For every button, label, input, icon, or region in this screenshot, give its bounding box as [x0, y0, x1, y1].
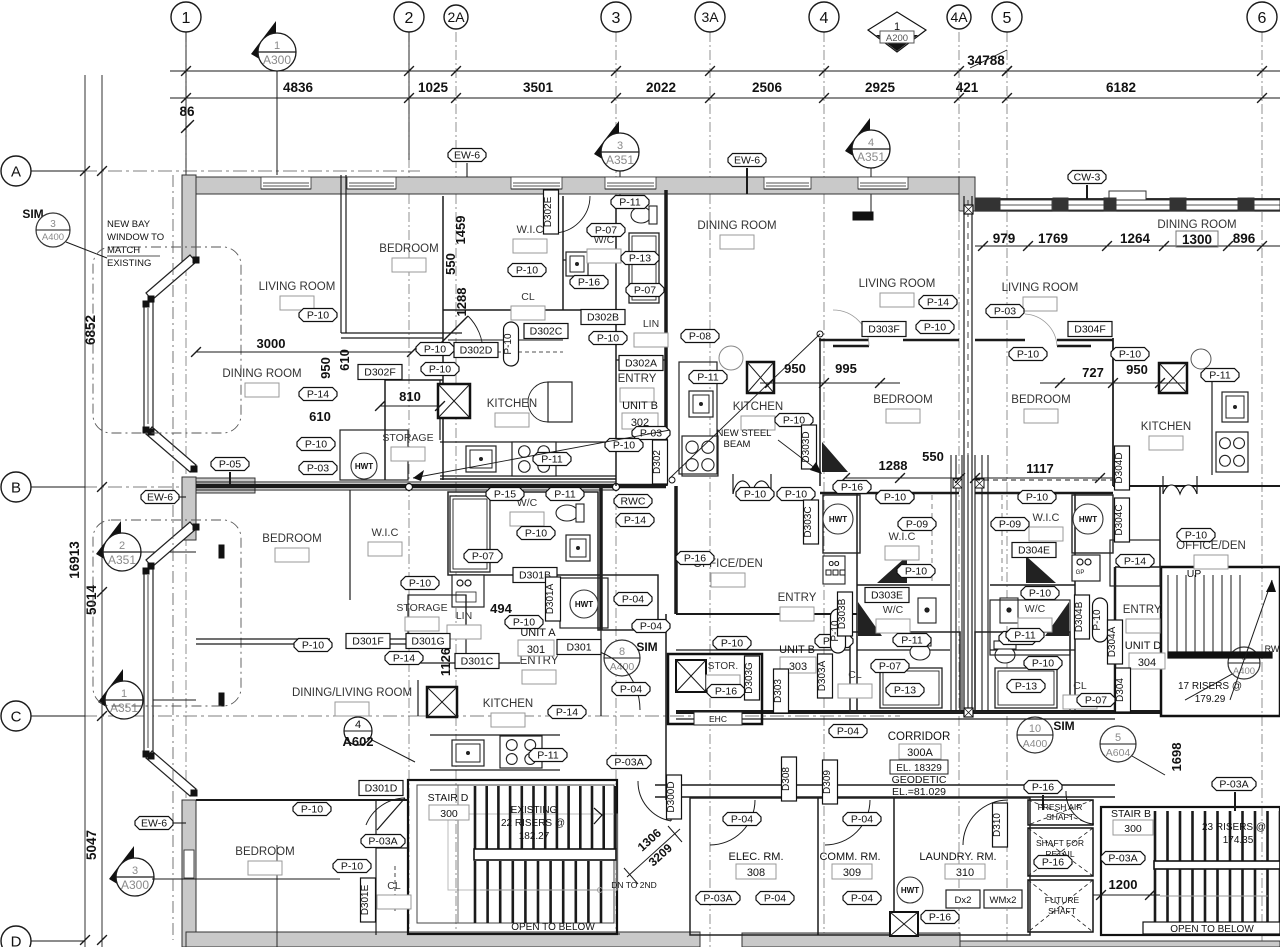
plumbing tag P-10	[897, 565, 935, 578]
svg-text:P-11: P-11	[537, 750, 559, 762]
svg-text:2506: 2506	[752, 80, 783, 95]
door tag D303A	[818, 654, 833, 698]
svg-text:BEDROOM: BEDROOM	[873, 394, 932, 406]
wall rooms bottom box	[690, 798, 1030, 935]
plumbing tag P-13	[621, 252, 659, 265]
shaft kitchen A	[427, 687, 457, 717]
svg-text:ENTRY: ENTRY	[778, 592, 817, 604]
wall bath core top	[676, 649, 850, 651]
door tag D301F	[346, 634, 390, 649]
svg-text:727: 727	[1082, 365, 1104, 380]
junction square 4A a	[964, 205, 973, 214]
wall unitD wc	[990, 600, 1070, 655]
svg-text:LIN: LIN	[643, 318, 659, 330]
mid tag P-14 extra	[919, 296, 957, 309]
svg-text:D308: D308	[781, 767, 792, 791]
plumbing tag P-16	[1034, 856, 1072, 869]
wall party 3 upper	[664, 190, 668, 486]
svg-text:P-07: P-07	[879, 661, 901, 673]
cl3 dashes	[394, 866, 396, 911]
marker 1/A351c	[98, 669, 123, 717]
window top 1	[261, 177, 311, 189]
marker 1/A200 diamond	[868, 12, 926, 52]
bay window 2	[146, 522, 196, 567]
leader EW-6 a	[466, 163, 468, 177]
plumbing tag P-10	[1024, 657, 1062, 670]
plumbing tag P-16	[833, 481, 871, 494]
svg-text:P-14: P-14	[1124, 556, 1146, 568]
plumbing tag P-10	[815, 635, 853, 648]
node junction B2	[406, 484, 413, 491]
shaft unitB stor	[676, 660, 706, 692]
grid line C	[33, 715, 420, 717]
svg-text:2022: 2022	[646, 80, 676, 95]
svg-text:P-15: P-15	[494, 489, 516, 501]
svg-text:421: 421	[956, 80, 979, 95]
row A leader	[31, 170, 85, 172]
plumbing tag P-10	[1021, 587, 1059, 600]
svg-text:Dx2: Dx2	[955, 895, 972, 906]
plumbing tag P-11	[999, 632, 1037, 645]
room tag box DINING ROOM	[245, 383, 279, 397]
wall right unit kitchen	[1112, 338, 1114, 486]
plumbing tag P-04	[723, 813, 761, 826]
wall mid bedroomR right	[1112, 338, 1114, 486]
door tag D303	[774, 669, 789, 713]
svg-text:2925: 2925	[865, 80, 896, 95]
svg-text:EW-6: EW-6	[141, 818, 167, 830]
svg-text:WINDOW TO: WINDOW TO	[107, 232, 164, 243]
stair-up risers	[1167, 575, 1169, 655]
svg-text:CL: CL	[521, 291, 535, 303]
svg-text:W.I.C: W.I.C	[517, 224, 544, 236]
ehc box	[694, 712, 742, 725]
door wedge wicR	[1026, 556, 1056, 583]
plumbing tag P-11	[611, 196, 649, 209]
left dimension line inner	[101, 75, 103, 947]
svg-text:DINING ROOM: DINING ROOM	[697, 220, 776, 232]
plumbing tag P-05	[211, 458, 249, 471]
svg-text:P-03: P-03	[994, 306, 1016, 318]
svg-text:COMM. RM.: COMM. RM.	[819, 851, 880, 863]
window top-right 1	[1000, 200, 1052, 210]
room tag box ENTRY	[620, 388, 654, 402]
svg-text:P-10: P-10	[1119, 349, 1141, 361]
room tag box BEDROOM	[886, 409, 920, 423]
svg-text:P-13: P-13	[629, 253, 651, 265]
svg-text:300A: 300A	[907, 747, 933, 759]
wall bedroom2 right	[349, 490, 351, 600]
door tag D301	[557, 640, 601, 655]
door entryA	[578, 648, 640, 710]
svg-text:D303D: D303D	[801, 431, 812, 462]
svg-text:550: 550	[443, 253, 458, 275]
svg-text:22 RISERS @: 22 RISERS @	[501, 818, 565, 829]
svg-text:D303C: D303C	[803, 506, 814, 537]
door wedge D303D	[822, 442, 848, 472]
svg-text:HWT: HWT	[575, 600, 593, 609]
wall cl1 bottom	[443, 309, 616, 311]
plumbing tag P-10	[508, 264, 546, 277]
plumbing tag P-10	[517, 527, 555, 540]
counter 302B	[679, 362, 717, 474]
door tag D302E	[544, 190, 559, 234]
svg-text:P-11: P-11	[541, 454, 563, 466]
plumbing tag P-09	[991, 518, 1029, 531]
wall corridor left	[665, 614, 667, 800]
plumbing tag EW-6	[448, 149, 486, 162]
svg-text:P-10: P-10	[785, 489, 807, 501]
door tag D304	[1116, 668, 1131, 712]
section line 1 bottom	[276, 845, 278, 947]
room tag box LIVING ROOM	[280, 296, 314, 310]
node junction B3	[613, 484, 620, 491]
door tag D301B	[513, 568, 557, 583]
svg-text:8: 8	[619, 646, 625, 658]
door wedge wcR	[1045, 602, 1069, 636]
wall party 4A	[963, 196, 965, 716]
svg-text:BEDROOM: BEDROOM	[262, 533, 321, 545]
svg-text:10: 10	[1029, 723, 1041, 735]
svg-text:BEDROOM: BEDROOM	[235, 846, 294, 858]
door tag D304A	[1108, 620, 1123, 664]
svg-text:P-03A: P-03A	[703, 893, 732, 905]
grid bubble 2A	[444, 5, 468, 29]
wall kitchen counter top	[440, 478, 616, 480]
tub unit A	[450, 496, 490, 572]
wall stub B	[196, 478, 255, 493]
bifold door right	[1163, 485, 1197, 494]
room tag box CL	[1063, 695, 1097, 709]
svg-text:DINING/LIVING ROOM: DINING/LIVING ROOM	[292, 687, 412, 699]
dim line 810	[380, 405, 440, 407]
svg-text:2: 2	[405, 10, 414, 27]
svg-text:D301: D301	[566, 642, 591, 654]
svg-text:OPEN TO BELOW: OPEN TO BELOW	[511, 922, 595, 933]
door tag D302C	[524, 324, 568, 339]
plumbing tag P-10	[1177, 529, 1215, 542]
svg-text:D302: D302	[652, 450, 663, 474]
wall unitD left vertical	[1114, 567, 1117, 712]
junction square 4A c	[964, 708, 973, 717]
dimension line lower	[170, 97, 1280, 99]
grid line 4A	[958, 32, 960, 947]
svg-text:P-16: P-16	[929, 912, 951, 924]
plumbing tag P-11	[533, 453, 571, 466]
svg-text:3: 3	[132, 865, 138, 877]
wall unit A right	[599, 486, 603, 630]
toilet 302	[631, 206, 657, 224]
svg-text:W/C: W/C	[883, 604, 904, 616]
svg-text:NEW BAY: NEW BAY	[107, 219, 151, 230]
grid bubble 1	[171, 2, 201, 32]
room tag box W.I.C	[1029, 527, 1063, 541]
svg-text:1300: 1300	[1182, 232, 1212, 247]
plumbing tag P-07	[871, 660, 909, 673]
svg-text:P-04: P-04	[764, 893, 786, 905]
svg-text:P-10: P-10	[525, 528, 547, 540]
svg-text:5047: 5047	[84, 830, 99, 860]
wall unitD left	[1115, 566, 1161, 568]
svg-text:UNIT D: UNIT D	[1125, 640, 1162, 652]
svg-text:CORRIDOR: CORRIDOR	[888, 731, 951, 743]
wall unitB storage	[668, 654, 762, 724]
door tag D304C	[1115, 498, 1130, 542]
fixture circle 302B	[719, 346, 743, 370]
svg-text:P-10: P-10	[924, 322, 946, 334]
svg-text:1769: 1769	[1038, 231, 1068, 246]
grid bubble 3	[601, 2, 631, 32]
svg-text:P-10: P-10	[721, 638, 743, 650]
svg-text:P-10: P-10	[1017, 349, 1039, 361]
svg-text:D303A: D303A	[817, 660, 828, 691]
svg-text:P-11: P-11	[901, 635, 923, 647]
svg-text:D304B: D304B	[1074, 601, 1085, 632]
svg-text:P-03A: P-03A	[1108, 853, 1137, 865]
svg-text:BEAM: BEAM	[724, 439, 751, 450]
svg-text:KITCHEN: KITCHEN	[483, 698, 533, 710]
wall unit A right low	[600, 630, 602, 716]
svg-text:979: 979	[993, 231, 1016, 246]
plumbing tag P-04	[756, 892, 794, 905]
door tag D302D	[454, 343, 498, 358]
wall mid units bottom	[676, 613, 857, 615]
room tag box OFFICE/DEN	[1194, 555, 1228, 569]
svg-text:OO: OO	[829, 561, 840, 568]
svg-text:P-10: P-10	[1185, 530, 1207, 542]
grid stub 2	[408, 32, 410, 160]
svg-text:550: 550	[922, 449, 944, 464]
marker 3/A300 sectline	[152, 878, 340, 880]
plumbing tag P-10	[293, 803, 331, 816]
room tag box ENTRY.	[1126, 619, 1160, 633]
room tag box W/C	[1018, 618, 1052, 632]
svg-text:CL: CL	[848, 669, 862, 681]
svg-text:182.27: 182.27	[519, 831, 550, 842]
plumbing tag P-04	[843, 813, 881, 826]
sink k302	[466, 446, 496, 472]
svg-text:P-05: P-05	[219, 459, 241, 471]
svg-text:301: 301	[527, 644, 545, 656]
window left low 1	[184, 850, 194, 878]
plumbing tag P-03A	[607, 756, 651, 769]
stair B rail	[1160, 895, 1268, 897]
mid tag P-10 extra	[916, 321, 954, 334]
door tag D310	[993, 803, 1008, 847]
shaft mid kitchen	[1159, 363, 1187, 393]
room tag box W/C	[587, 249, 621, 263]
grid line 5	[1006, 32, 1008, 947]
stair D handrail	[480, 889, 598, 891]
svg-text:LIN: LIN	[456, 610, 472, 622]
svg-text:GEODETIC: GEODETIC	[892, 774, 947, 786]
room tag box CL	[511, 306, 545, 320]
svg-text:P-10: P-10	[1029, 588, 1051, 600]
svg-text:D301C: D301C	[461, 656, 494, 668]
wall bathD box	[975, 632, 1070, 712]
row C leader	[31, 715, 85, 717]
plumbing tag P-10	[299, 309, 337, 322]
plumbing tag P-14	[299, 388, 337, 401]
svg-text:CL: CL	[1073, 680, 1087, 692]
svg-text:P-10: P-10	[409, 578, 431, 590]
wall unitA entry top	[408, 662, 520, 664]
svg-text:P-10: P-10	[429, 364, 451, 376]
svg-text:D304D: D304D	[1114, 452, 1125, 483]
exterior wall bottom mid	[742, 933, 960, 947]
svg-text:P-16: P-16	[578, 277, 600, 289]
plumbing tag P-04	[612, 683, 650, 696]
svg-text:4: 4	[868, 137, 874, 149]
window top-right 5	[1254, 200, 1280, 210]
svg-text:3000: 3000	[257, 336, 286, 351]
svg-text:310: 310	[956, 867, 974, 879]
stair D divider	[457, 785, 459, 923]
svg-text:D302E: D302E	[543, 196, 554, 227]
svg-text:P-16: P-16	[684, 553, 706, 565]
svg-text:P-04: P-04	[620, 684, 642, 696]
svg-text:950: 950	[1126, 362, 1148, 377]
shaft for retail	[1028, 828, 1093, 876]
wall mid units top L	[819, 339, 869, 342]
door leaf D303F	[833, 345, 869, 348]
plumbing tag P-10	[505, 616, 543, 629]
marker 5/A604	[1100, 726, 1136, 762]
svg-text:P-16: P-16	[841, 482, 863, 494]
svg-text:D304E: D304E	[1018, 545, 1050, 557]
svg-text:A300: A300	[121, 878, 149, 892]
plumbing tag P-16	[707, 685, 745, 698]
leader CW-3	[1086, 185, 1088, 199]
grid line 3	[615, 32, 617, 947]
plumbing tag P-16	[570, 276, 608, 289]
svg-text:KITCHEN: KITCHEN	[733, 401, 783, 413]
door D302E	[552, 196, 554, 233]
plumbing tag P-08	[681, 330, 719, 343]
plumbing tag P-10	[589, 332, 627, 345]
svg-text:B: B	[11, 479, 21, 496]
plumbing tag EW-6	[141, 491, 179, 504]
plumbing tag P-07	[626, 284, 664, 297]
svg-text:CW-3: CW-3	[1074, 172, 1101, 184]
dim line 950-995	[760, 382, 900, 384]
grid bubble 6	[1247, 2, 1277, 32]
door leaf D304F	[1057, 345, 1091, 348]
svg-text:P-14: P-14	[307, 389, 329, 401]
wall 309/310 divider	[893, 798, 895, 935]
svg-text:P-07: P-07	[1085, 695, 1107, 707]
wall mid bedroomL left	[819, 338, 821, 486]
svg-text:W.I.C: W.I.C	[372, 527, 399, 539]
svg-text:P-11: P-11	[554, 489, 576, 501]
svg-text:EL. 18329: EL. 18329	[896, 763, 942, 774]
room tag box W.I.C	[368, 542, 402, 556]
stair B risers upper	[1154, 811, 1157, 861]
wall kitchen1 left	[439, 380, 441, 440]
room tag box LIVING ROOM	[1023, 297, 1057, 311]
wall 308/309 divider	[817, 798, 819, 935]
plumbing tag P-10	[777, 488, 815, 501]
svg-text:D301A: D301A	[545, 583, 556, 614]
hwt storage top	[351, 453, 377, 479]
svg-text:308: 308	[747, 867, 765, 879]
dim line 1117	[975, 477, 1113, 479]
svg-text:RWC: RWC	[621, 496, 646, 508]
door tag D300D	[667, 775, 682, 819]
svg-text:A351: A351	[606, 153, 634, 167]
svg-text:P-10: P-10	[884, 492, 906, 504]
door D300D arc	[638, 781, 671, 821]
wall mid B level	[820, 492, 959, 495]
svg-text:P-04: P-04	[622, 594, 644, 606]
svg-text:P-03A: P-03A	[614, 757, 643, 769]
sink kitchen A	[452, 740, 484, 766]
leader P-05	[229, 472, 231, 486]
svg-text:6: 6	[1258, 10, 1267, 27]
svg-text:16913: 16913	[67, 541, 82, 579]
plumbing tag P-04	[829, 725, 867, 738]
svg-text:P-07: P-07	[634, 285, 656, 297]
room tag box STOR.	[706, 675, 740, 689]
svg-text:3: 3	[617, 140, 623, 152]
grid bubble 3A	[695, 2, 725, 32]
svg-text:KITCHEN: KITCHEN	[487, 398, 537, 410]
svg-text:D301G: D301G	[411, 636, 444, 648]
room tag box STORAGE	[405, 617, 439, 631]
grid line C ext	[420, 715, 900, 717]
room tag box LIVING ROOM	[880, 293, 914, 307]
closet dash wicL	[931, 495, 933, 583]
stair D mid rail	[474, 849, 616, 860]
svg-text:A400: A400	[1233, 666, 1255, 677]
wall right unit low	[975, 479, 1113, 481]
plumbing tag P-10 vert2	[831, 609, 846, 653]
svg-text:P-03A: P-03A	[368, 836, 397, 848]
svg-text:P-04: P-04	[640, 621, 662, 633]
door wedge wcL	[858, 602, 882, 636]
plumbing tag P-07	[464, 550, 502, 563]
room tag box LIN	[447, 625, 481, 639]
stair B risers lower	[1154, 869, 1157, 922]
plumbing tag P-10	[1018, 491, 1056, 504]
svg-text:EW-6: EW-6	[454, 150, 480, 162]
door tag D302A	[619, 356, 663, 371]
svg-text:A351: A351	[110, 701, 138, 715]
sink unit A	[566, 535, 590, 561]
svg-text:P-07: P-07	[472, 551, 494, 563]
svg-text:HWT: HWT	[1079, 515, 1097, 524]
svg-text:3A: 3A	[701, 9, 719, 25]
svg-text:STAIR D: STAIR D	[428, 792, 469, 804]
svg-text:BEDROOM: BEDROOM	[379, 243, 438, 255]
gas meter A	[452, 575, 484, 607]
svg-text:P-13: P-13	[1015, 681, 1037, 693]
plumbing tag P-10	[713, 637, 751, 650]
svg-text:P-11: P-11	[697, 372, 719, 384]
svg-text:P-03: P-03	[307, 463, 329, 475]
range right	[1216, 432, 1248, 472]
plumbing tag P-03	[632, 427, 670, 440]
svg-text:EW-6: EW-6	[147, 492, 173, 504]
wall hwtA box	[598, 575, 658, 630]
wall mid units top R	[975, 339, 1025, 342]
marker 4/A602	[344, 717, 372, 745]
door arc 309	[825, 800, 870, 845]
room tag box STORAGE	[391, 447, 425, 461]
wall dining bottom	[196, 799, 408, 801]
sink right	[1222, 392, 1248, 422]
svg-text:P-10: P-10	[302, 640, 324, 652]
